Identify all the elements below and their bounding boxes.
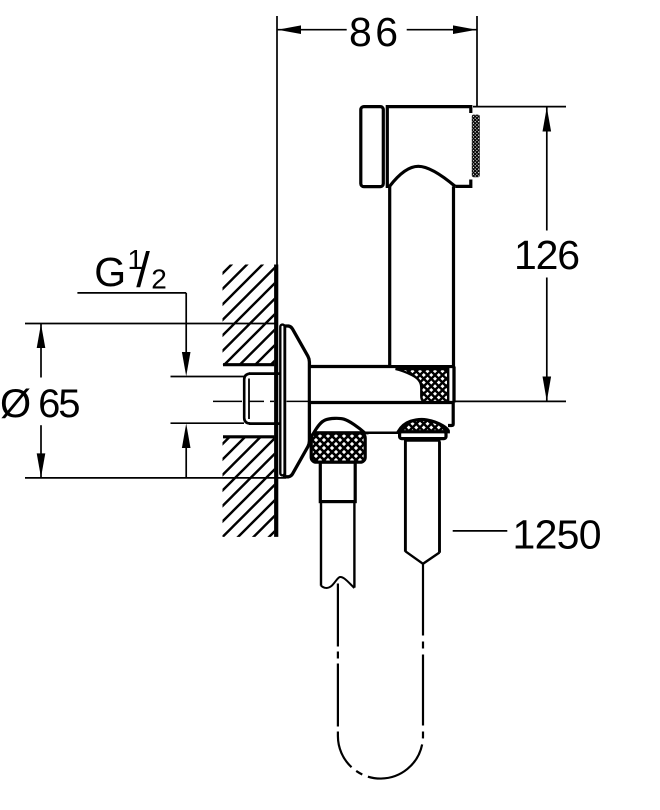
svg-text:/: / <box>136 244 150 298</box>
svg-text:1250: 1250 <box>513 512 602 558</box>
svg-text:2: 2 <box>151 263 167 294</box>
svg-text:126: 126 <box>514 232 580 278</box>
svg-text:G: G <box>94 249 126 295</box>
svg-text:Ø 65: Ø 65 <box>0 382 81 426</box>
